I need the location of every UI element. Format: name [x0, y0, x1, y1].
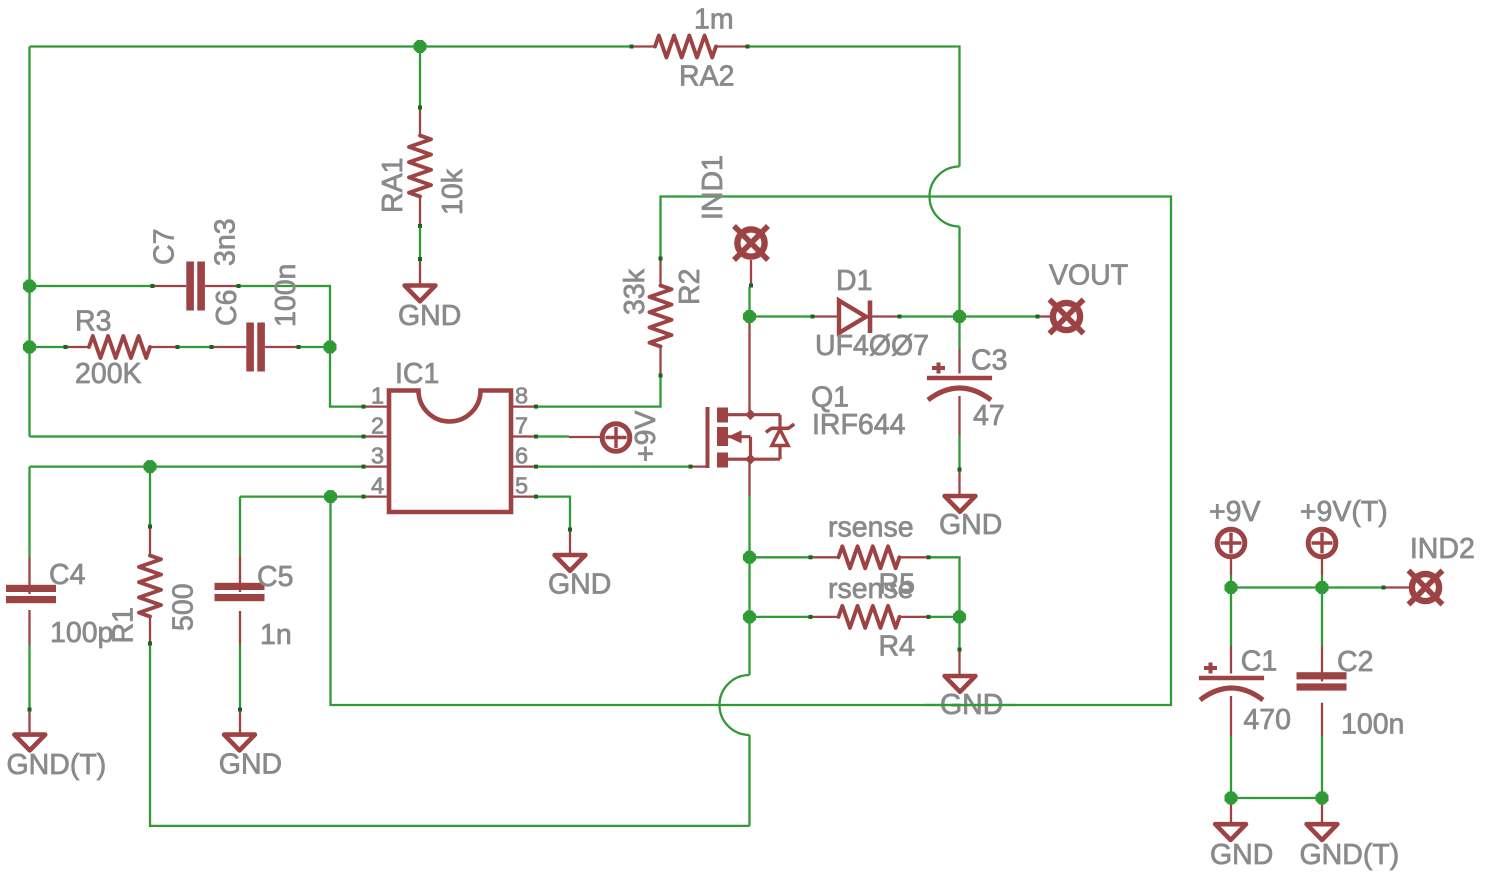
junction D1 cathode / VOUT / C3: [953, 310, 966, 323]
junction pin4 row / net column: [324, 490, 337, 503]
wire R4 row right: [930, 616, 960, 618]
svg-text:RA1: RA1: [377, 158, 409, 213]
label C6 value 100n: [270, 264, 302, 327]
svg-text:10k: 10k: [437, 168, 469, 215]
svg-text:VOUT: VOUT: [1049, 260, 1128, 292]
svg-text:GND: GND: [1210, 839, 1273, 871]
svg-text:UF4ØØ7: UF4ØØ7: [815, 330, 929, 362]
svg-text:100p: 100p: [50, 617, 113, 649]
wire top rail net N1: [30, 45, 631, 47]
svg-text:1m: 1m: [694, 4, 734, 36]
ground GND below R4 junction: [945, 648, 976, 692]
pad VOUT: [1036, 300, 1084, 334]
svg-text:1: 1: [371, 383, 384, 409]
wire C3 top: [958, 317, 960, 350]
ground GND below C1: [1215, 798, 1246, 840]
wire rail down to VOUT row: [958, 227, 960, 317]
wire R3 row left: [30, 346, 65, 348]
label GND below RA1: [398, 300, 461, 332]
capacitor C2: [1297, 646, 1347, 736]
label GND below R4 junction: [940, 689, 1003, 721]
label C3 name: [971, 345, 1007, 377]
pin 3: [362, 465, 390, 469]
svg-text:GND: GND: [548, 569, 611, 601]
svg-text:GND(T): GND(T): [7, 749, 107, 781]
junction Q1 source / R5: [743, 551, 756, 564]
label GND(T) below C4: [7, 749, 107, 781]
wire C7 right to corner down: [240, 286, 330, 347]
label R1 value 500: [168, 583, 200, 631]
op-amp IC1 body: [389, 391, 511, 513]
svg-text:GND: GND: [219, 749, 282, 781]
wire R4 junction to gnd: [958, 617, 960, 648]
power +9V symbol at pin 7: [569, 424, 630, 452]
resistor R5: [809, 546, 931, 568]
label IND1: [697, 155, 729, 220]
svg-text:RA2: RA2: [679, 61, 734, 93]
power +9V symbol: [1217, 529, 1245, 575]
label Q1 value IRF644: [812, 409, 906, 441]
svg-text:GND: GND: [398, 300, 461, 332]
svg-text:D1: D1: [836, 265, 872, 297]
svg-text:470: 470: [1243, 704, 1291, 736]
pin number 7: [515, 413, 528, 439]
label R4 value rsense: [828, 573, 914, 605]
junction +9V / supply row: [1225, 581, 1238, 594]
wire IND1 down: [748, 287, 750, 317]
wire C5 below: [239, 645, 241, 708]
label C2 value 100n: [1341, 709, 1404, 741]
label R2 name: [674, 269, 706, 305]
svg-text:5: 5: [515, 473, 528, 499]
svg-text:IC1: IC1: [395, 358, 439, 390]
label R3 value 200K: [75, 358, 142, 390]
ground GND below C5: [224, 708, 255, 751]
svg-text:3n3: 3n3: [210, 218, 242, 266]
wire left rail: [28, 47, 30, 437]
wire pin2 row: [30, 435, 363, 437]
svg-text:+9V: +9V: [630, 410, 662, 462]
wire C2 bottom: [1321, 736, 1323, 798]
label RA1 name: [377, 158, 409, 213]
wire C2 top: [1321, 588, 1323, 647]
label C4 value 100p: [50, 617, 113, 649]
label C7 value 3n3: [210, 218, 242, 266]
label C4 name: [49, 559, 86, 591]
label +9V at pin 7: [630, 410, 662, 462]
pin 4: [362, 495, 390, 499]
pin 6: [511, 465, 538, 469]
wire VOUT row to pad: [960, 315, 1037, 317]
label R1 name: [108, 607, 140, 643]
svg-text:C6: C6: [211, 290, 243, 326]
resistor RA2: [630, 36, 750, 58]
label C5 name: [257, 561, 293, 593]
wire pin6 to Q1 gate: [538, 465, 690, 467]
svg-text:4: 4: [371, 473, 384, 499]
wire RA1 to gnd: [419, 228, 421, 258]
svg-text:GND: GND: [939, 509, 1002, 541]
pin number 2: [371, 413, 384, 439]
diode D1: [811, 301, 902, 334]
wire hop over net at (749,705): [720, 675, 750, 735]
ground GND(T) below C2: [1307, 798, 1338, 840]
label R5 name: [879, 569, 915, 601]
junction C1 / ground row: [1225, 792, 1238, 805]
svg-text:rsense: rsense: [828, 512, 914, 544]
wire supply row: [1231, 586, 1322, 588]
svg-text:C3: C3: [971, 345, 1007, 377]
wire hop over net at (959,196): [930, 167, 960, 227]
pin number 8: [515, 383, 528, 409]
svg-text:C1: C1: [1241, 646, 1277, 678]
junction left rail / R3 row: [23, 341, 36, 354]
svg-text:100n: 100n: [270, 264, 302, 327]
wire junction down to pin1 row: [330, 347, 362, 407]
resistor RA1: [409, 106, 431, 229]
wire to IND2: [1322, 586, 1382, 588]
label IND2: [1410, 533, 1475, 565]
wire Q1 source down: [748, 497, 750, 558]
junction IND1 / D1 anode / Q1 drain: [743, 310, 756, 323]
capacitor C5: [215, 556, 265, 645]
wire pin3 row: [30, 465, 363, 467]
junction Q1 source / R4: [743, 610, 756, 623]
label C7 name: [149, 229, 181, 265]
svg-text:R2: R2: [674, 269, 706, 305]
pin 5: [511, 495, 538, 499]
wire C3 below: [958, 435, 960, 468]
ground GND(T) below C4: [14, 708, 45, 751]
label IC1 name: [395, 358, 439, 390]
wire RA1 top: [419, 47, 421, 107]
svg-text:200K: 200K: [75, 358, 142, 390]
svg-text:100n: 100n: [1341, 709, 1404, 741]
pin number 6: [515, 443, 528, 469]
svg-text:3: 3: [371, 443, 384, 469]
wire C4 column: [28, 467, 30, 557]
ground GND below pin 5: [555, 528, 586, 571]
label +9V: [1209, 496, 1261, 528]
capacitor C3 polarized: [927, 349, 992, 435]
label D1 name: [836, 265, 872, 297]
label RA1 value 10k: [437, 168, 469, 215]
label C1 value 470: [1243, 704, 1291, 736]
junction C2 / ground row: [1316, 792, 1329, 805]
wire VOUT row left segment: [750, 315, 812, 317]
wire net from pin4 junction down: [331, 197, 1172, 706]
pad IND1: [734, 226, 768, 288]
label VOUT: [1049, 260, 1128, 292]
resistor R4: [809, 606, 931, 628]
svg-text:33k: 33k: [619, 268, 651, 315]
junction top rail / RA1: [414, 40, 427, 53]
wire RA2 right to corner: [749, 47, 960, 167]
svg-text:2: 2: [371, 413, 384, 439]
capacitor C6: [210, 323, 301, 372]
svg-text:IRF644: IRF644: [812, 409, 906, 441]
svg-text:R4: R4: [879, 631, 916, 663]
svg-text:7: 7: [515, 413, 528, 439]
label GND below C5: [219, 749, 282, 781]
ground GND below RA1: [405, 257, 436, 301]
power +9V(T) symbol: [1308, 529, 1336, 575]
label C3 value 47: [973, 400, 1005, 432]
svg-text:IND2: IND2: [1410, 533, 1475, 565]
wire pin4 row: [240, 495, 362, 497]
svg-text:C5: C5: [257, 561, 293, 593]
junction R4 right / GND column: [953, 610, 966, 623]
svg-text:+9V(T): +9V(T): [1300, 496, 1388, 528]
svg-text:IND1: IND1: [697, 155, 729, 220]
pin number 3: [371, 443, 384, 469]
wire gnd row right: [1231, 797, 1322, 799]
pin number 4: [371, 473, 384, 499]
wire hop to bottom corner: [748, 735, 750, 826]
pin 8: [511, 405, 538, 409]
wire source to R4 row: [748, 557, 750, 617]
label GND below C1: [1210, 839, 1273, 871]
svg-text:1n: 1n: [260, 619, 292, 651]
label GND below C3: [939, 509, 1002, 541]
resistor R3: [64, 336, 180, 358]
junction left rail / C7 row: [23, 280, 36, 293]
wire R5 row left: [750, 556, 810, 558]
junction pin3 row / R1: [144, 460, 157, 473]
wire +9V col: [1230, 575, 1232, 588]
wire pin7 to +9V: [538, 435, 570, 437]
wire C1 top: [1230, 588, 1232, 647]
wire R1 column top: [149, 467, 151, 525]
label C1 name: [1241, 646, 1277, 678]
wire pin5 to gnd corner: [538, 497, 571, 528]
svg-text:C4: C4: [49, 559, 86, 591]
pin 2: [362, 435, 390, 439]
label R3 name: [75, 306, 111, 338]
wire R2 bottom to pin8 row: [538, 377, 661, 407]
pin 1: [362, 405, 390, 409]
junction C6 / pin1 column: [324, 341, 337, 354]
pad IND2: [1382, 571, 1443, 605]
label R5 value rsense: [828, 512, 914, 544]
wire R1 column bottom: [150, 645, 750, 826]
svg-text:R3: R3: [75, 306, 111, 338]
wire R5 row right: [930, 557, 960, 617]
svg-text:+9V: +9V: [1209, 496, 1261, 528]
wire C4 below: [28, 645, 30, 708]
wire +9V(T) col: [1321, 575, 1323, 588]
label C6 name: [211, 290, 243, 326]
wire C1 bottom: [1230, 736, 1232, 798]
capacitor C7: [151, 262, 241, 311]
wire C7 row: [30, 285, 152, 287]
svg-text:GND(T): GND(T): [1300, 839, 1400, 871]
label C5 value 1n: [260, 619, 292, 651]
label R4 name: [879, 631, 916, 663]
transistor Q1 IRF644: [689, 317, 795, 497]
label RA2 value 1m: [694, 4, 734, 36]
svg-text:6: 6: [515, 443, 528, 469]
label R2 value 33k: [619, 268, 651, 315]
wire C6 right to junction: [300, 346, 330, 348]
label GND below pin 5: [548, 569, 611, 601]
wire VOUT row mid segment: [901, 315, 960, 317]
wire C5 column: [239, 497, 241, 556]
svg-text:R1: R1: [108, 607, 140, 643]
label D1 value UF4007: [815, 330, 929, 362]
capacitor C4: [6, 557, 56, 645]
svg-text:C2: C2: [1337, 646, 1373, 678]
pin number 1: [371, 383, 384, 409]
label GND(T) below C2: [1300, 839, 1400, 871]
wire R4 junction down to hop: [748, 617, 750, 675]
svg-text:C7: C7: [149, 229, 181, 265]
ground GND below C3: [945, 468, 976, 512]
label C2 name: [1337, 646, 1373, 678]
pin number 5: [515, 473, 528, 499]
wire net crossing GND label: [925, 704, 1015, 706]
label RA2 name: [679, 61, 734, 93]
label +9V(T): [1300, 496, 1388, 528]
svg-text:rsense: rsense: [828, 573, 914, 605]
resistor R1: [139, 525, 161, 646]
pin 7: [511, 435, 538, 439]
wire R4 row left: [750, 616, 810, 618]
resistor R2: [650, 257, 672, 378]
svg-text:8: 8: [515, 383, 528, 409]
wire R3 to C6: [179, 346, 210, 348]
capacitor C1 polarized: [1199, 646, 1264, 736]
label Q1 name: [811, 382, 849, 414]
svg-text:500: 500: [168, 583, 200, 631]
svg-text:47: 47: [973, 400, 1005, 432]
junction +9V(T) / supply row: [1316, 581, 1329, 594]
